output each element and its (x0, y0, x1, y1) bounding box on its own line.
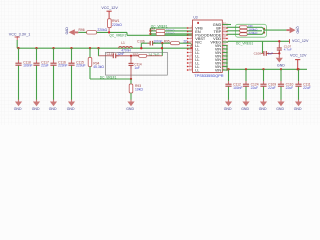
svg-text:220kΩ: 220kΩ (97, 28, 107, 32)
svg-text:VCC_12V: VCC_12V (292, 39, 309, 43)
svg-text:GND: GND (276, 107, 284, 111)
svg-text:R95: R95 (164, 40, 170, 44)
svg-text:TPS53355DQPR: TPS53355DQPR (194, 74, 223, 78)
svg-text:GND: GND (224, 107, 232, 111)
svg-text:GND: GND (126, 107, 134, 111)
svg-text:45.3kΩ: 45.3kΩ (93, 65, 104, 69)
svg-text:1uF: 1uF (134, 66, 139, 70)
svg-text:VIN: VIN (215, 68, 222, 72)
svg-text:GND: GND (241, 107, 249, 111)
svg-text:100nF: 100nF (23, 63, 32, 67)
svg-text:VCC_12V: VCC_12V (101, 6, 118, 10)
svg-text:220kΩ: 220kΩ (112, 23, 122, 27)
svg-text:10kΩ: 10kΩ (135, 87, 143, 91)
svg-text:12nF: 12nF (117, 52, 124, 56)
svg-text:VCC_12V: VCC_12V (290, 54, 307, 58)
svg-text:R97: R97 (150, 28, 156, 32)
svg-text:GND: GND (259, 107, 267, 111)
svg-text:GND: GND (294, 107, 302, 111)
svg-text:22uF: 22uF (268, 86, 276, 90)
svg-text:1uF: 1uF (268, 52, 273, 56)
svg-text:R96: R96 (79, 28, 85, 32)
svg-text:QAD: QAD (296, 26, 300, 34)
svg-text:DC_VREF1: DC_VREF1 (100, 75, 117, 79)
svg-text:220nF: 220nF (58, 63, 67, 67)
svg-text:U3: U3 (193, 15, 197, 19)
svg-text:L1: L1 (121, 41, 125, 45)
svg-text:22uF: 22uF (41, 63, 49, 67)
svg-text:22uF: 22uF (303, 86, 311, 90)
svg-text:C113: C113 (107, 52, 115, 56)
svg-text:100nF: 100nF (233, 86, 242, 90)
svg-text:GAD: GAD (65, 27, 69, 35)
svg-text:22uF: 22uF (286, 86, 294, 90)
svg-text:DC_VREG1: DC_VREG1 (236, 42, 253, 46)
svg-text:LL: LL (195, 68, 199, 72)
svg-text:14.7kΩ: 14.7kΩ (148, 53, 160, 57)
svg-text:VCC_3.3V_1: VCC_3.3V_1 (9, 32, 31, 36)
svg-text:GND: GND (14, 107, 22, 111)
svg-text:GND: GND (277, 64, 285, 68)
svg-text:22uF: 22uF (251, 86, 259, 90)
svg-text:220uF: 220uF (76, 63, 85, 67)
svg-text:220kΩ: 220kΩ (248, 31, 258, 35)
svg-text:GND: GND (32, 107, 40, 111)
svg-text:QC_VREF1: QC_VREF1 (109, 34, 126, 38)
svg-text:GND: GND (49, 107, 57, 111)
svg-text:C108: C108 (254, 52, 262, 56)
svg-text:R92: R92 (133, 53, 139, 57)
svg-text:4.7uF: 4.7uF (284, 48, 292, 52)
svg-text:GND: GND (67, 107, 75, 111)
